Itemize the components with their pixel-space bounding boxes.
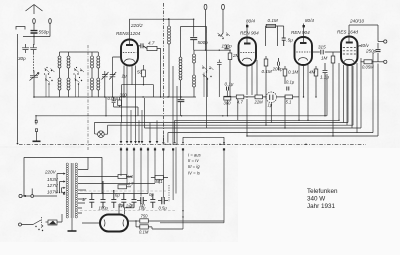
svg-text:0.1M: 0.1M [288,70,298,75]
svg-text:4.7: 4.7 [237,100,243,105]
svg-text:80/4: 80/4 [246,19,255,24]
svg-text:0.5μ: 0.5μ [159,206,168,211]
svg-text:150p: 150p [222,43,233,48]
svg-text:I = aus: I = aus [188,153,202,158]
svg-text:II = rv: II = rv [188,158,199,163]
svg-text:1Γ: 1Γ [82,197,87,202]
svg-text:22M: 22M [254,100,264,105]
svg-text:0μ: 0μ [140,203,145,208]
svg-text:0.1M: 0.1M [262,69,272,74]
svg-text:240/10: 240/10 [349,19,364,24]
svg-text:5.1: 5.1 [286,100,292,105]
svg-text:107V: 107V [47,189,59,194]
svg-text:0μ: 0μ [149,192,154,197]
svg-text:250p: 250p [365,49,377,54]
svg-text:5Γ1: 5Γ1 [156,179,163,184]
svg-text:6μ: 6μ [115,193,120,198]
svg-text:80/4: 80/4 [305,18,314,23]
svg-text:Jahr 1931: Jahr 1931 [307,203,336,210]
svg-text:315: 315 [318,45,326,50]
svg-text:7A: 7A [119,204,124,209]
svg-text:III = ig: III = ig [188,164,200,169]
svg-text:50: 50 [137,70,143,75]
svg-text:1.1μ: 1.1μ [320,75,329,80]
svg-text:220V: 220V [44,170,57,175]
svg-text:1μ: 1μ [122,74,128,79]
svg-text:40/v: 40/v [360,43,369,48]
svg-text:RENS 1204: RENS 1204 [116,31,141,36]
svg-text:RES 164d: RES 164d [337,30,358,35]
svg-text:.5μ: .5μ [286,37,293,42]
svg-text:127V: 127V [47,183,59,188]
svg-text:100μ: 100μ [99,206,109,211]
svg-text:REN 904: REN 904 [240,31,259,36]
svg-text:500p: 500p [198,40,209,45]
svg-text:ω1: ω1 [128,174,134,179]
svg-text:1M: 1M [321,56,328,61]
svg-text:750: 750 [141,214,149,219]
svg-text:0.1M: 0.1M [268,18,278,23]
svg-text:200p: 200p [272,67,284,72]
svg-text:0.1μ: 0.1μ [286,80,295,85]
svg-text:4.7: 4.7 [128,182,134,187]
svg-text:30p: 30p [18,56,26,61]
svg-text:0.1M: 0.1M [139,229,149,234]
svg-text:2M: 2M [232,53,240,58]
svg-text:1μ: 1μ [268,103,273,108]
svg-text:360: 360 [224,100,232,105]
svg-text:153V: 153V [47,177,59,182]
svg-text:340 W: 340 W [307,196,325,203]
svg-text:REN 904: REN 904 [291,30,310,35]
svg-text:IV = Is: IV = Is [188,171,201,176]
svg-text:220/2: 220/2 [130,23,143,28]
svg-text:Telefunken: Telefunken [307,188,338,195]
svg-text:0.05M: 0.05M [362,65,374,70]
svg-text:0.1μ: 0.1μ [225,82,234,87]
svg-text:4M: 4M [309,70,316,75]
svg-text:550p: 550p [39,30,50,35]
svg-text:4.7: 4.7 [148,41,155,46]
svg-text:2.2: 2.2 [125,204,132,209]
svg-text:300: 300 [120,93,128,98]
svg-text:0.05μ: 0.05μ [108,96,119,101]
